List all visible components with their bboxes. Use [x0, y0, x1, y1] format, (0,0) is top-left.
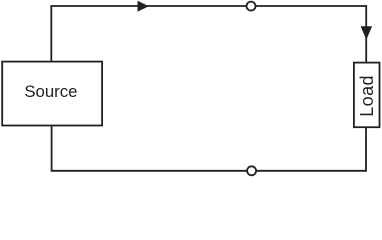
wire: source bottom lead (vertical) — [51, 126, 53, 171]
source box — [2, 62, 102, 126]
load box (resistor as rectangle) — [354, 63, 380, 128]
svg-text:Load: Load — [357, 75, 377, 117]
node: top terminal (open circle) — [247, 2, 256, 11]
wire: source top lead (vertical) — [50, 6, 52, 62]
node: bottom terminal (open circle) — [247, 166, 256, 175]
svg-text:Source: Source — [24, 82, 77, 101]
wire: bottom horizontal conductor — [51, 170, 367, 172]
wire: load bottom lead (vertical) — [365, 127, 367, 171]
wire: top horizontal conductor — [50, 5, 366, 7]
current direction arrow (top wire, pointing right) — [138, 1, 149, 12]
wire: load top lead (vertical, right side) — [365, 5, 367, 63]
current direction arrow (right wire, pointing down) — [361, 26, 373, 39]
